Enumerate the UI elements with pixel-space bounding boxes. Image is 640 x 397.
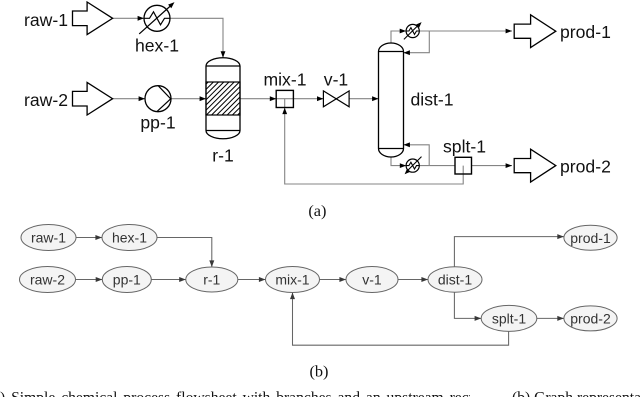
svg-text:pp-1: pp-1 [140,113,175,133]
svg-text:raw-2: raw-2 [24,90,68,110]
svg-text:r-1: r-1 [212,146,234,166]
svg-text:splt-1: splt-1 [443,136,486,156]
svg-text:mix-1: mix-1 [263,70,306,90]
svg-text:(b) Graph representation of th: (b) Graph representation of the flowshee… [512,390,640,397]
svg-text:dist-1: dist-1 [438,272,472,288]
svg-text:prod-1: prod-1 [560,22,611,42]
svg-text:prod-2: prod-2 [570,311,611,327]
svg-text:v-1: v-1 [324,70,348,90]
svg-text:mix-1: mix-1 [275,272,309,288]
svg-text:(a): (a) [308,201,326,220]
svg-text:a) Simple chemical process flo: a) Simple chemical process flowsheet wit… [0,390,546,397]
svg-text:hex-1: hex-1 [112,230,147,246]
svg-text:splt-1: splt-1 [492,311,526,327]
svg-text:r-1: r-1 [203,272,220,288]
svg-text:raw-1: raw-1 [31,230,66,246]
svg-text:prod-1: prod-1 [570,230,611,246]
svg-text:pp-1: pp-1 [113,272,141,288]
svg-text:(b): (b) [310,361,329,380]
svg-text:v-1: v-1 [362,272,382,288]
svg-text:dist-1: dist-1 [411,89,454,109]
svg-text:raw-2: raw-2 [30,272,65,288]
svg-text:prod-2: prod-2 [560,156,611,176]
svg-text:hex-1: hex-1 [135,36,179,56]
svg-text:raw-1: raw-1 [24,10,68,30]
